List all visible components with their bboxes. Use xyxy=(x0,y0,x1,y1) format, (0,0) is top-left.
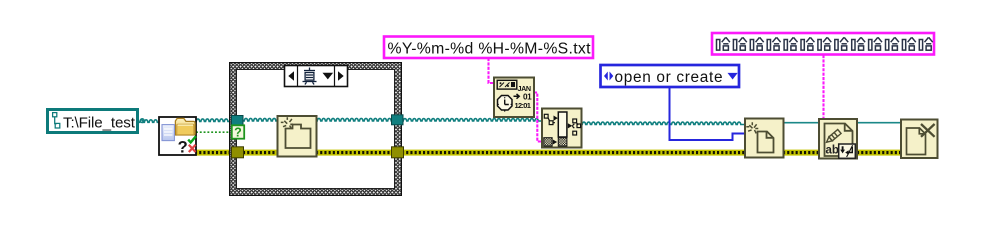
wire error case-to-open xyxy=(402,150,745,156)
wire error open-to-write xyxy=(783,150,819,156)
wire string format to Format Date/Time xyxy=(489,58,495,83)
subVI Check if File or Folder Exists xyxy=(159,117,196,157)
function Write to Text File xyxy=(819,119,857,159)
wire enum blue to Open/Create xyxy=(670,88,746,140)
enum constant open or create xyxy=(601,65,740,87)
tunnel path right (teal) xyxy=(392,115,404,125)
svg-text:?: ? xyxy=(178,139,188,157)
wire path Check VI to case tunnel xyxy=(195,119,232,121)
wire error case-inside-left xyxy=(243,150,278,156)
wire error write-to-close xyxy=(857,150,901,156)
tunnel error left (olive) xyxy=(232,147,244,158)
function Format Date/Time String xyxy=(494,78,534,118)
case structure frame xyxy=(230,63,402,196)
wire string Format Date/Time to Build Path xyxy=(534,93,542,142)
function Open/Create/Replace File xyxy=(745,119,784,158)
svg-text:open or create: open or create xyxy=(615,69,723,86)
svg-text:%Y-%m-%d %H-%M-%S.txt: %Y-%m-%d %H-%M-%S.txt xyxy=(388,41,592,58)
case selector label xyxy=(285,66,348,87)
string constant haha x13 xyxy=(712,33,934,55)
wire path Build Path to Open/Create xyxy=(581,122,745,124)
wire path inside case left xyxy=(243,118,278,120)
wire boolean exists to selector tunnel xyxy=(196,131,232,133)
function Build Path xyxy=(542,109,582,148)
tunnel error right (olive) xyxy=(392,147,404,158)
path constant T:\File_test xyxy=(48,110,138,133)
subVI Create Folder xyxy=(278,116,317,157)
wire refnum Write to Close xyxy=(857,122,901,124)
svg-text:?: ? xyxy=(234,126,242,140)
tunnel selector ? xyxy=(232,125,244,139)
svg-text:T:\File_test: T:\File_test xyxy=(63,115,136,132)
wire path case to Build Path xyxy=(402,119,542,121)
wire refnum Open/Create to Write xyxy=(783,122,819,124)
wire error check-to-case xyxy=(195,150,232,156)
svg-text:12:01: 12:01 xyxy=(515,101,531,110)
string constant %Y-%m-%d %H-%M-%S.txt xyxy=(384,37,593,59)
wire path squiggle from constant to Check VI xyxy=(139,119,160,123)
wire string haha to Write xyxy=(822,55,824,119)
tunnel path left (teal) xyxy=(232,116,244,126)
wire error case-inside-right xyxy=(316,150,392,156)
function Close File xyxy=(901,120,938,159)
wire path inside case right xyxy=(316,118,392,120)
svg-text:ab: ab xyxy=(826,145,839,157)
